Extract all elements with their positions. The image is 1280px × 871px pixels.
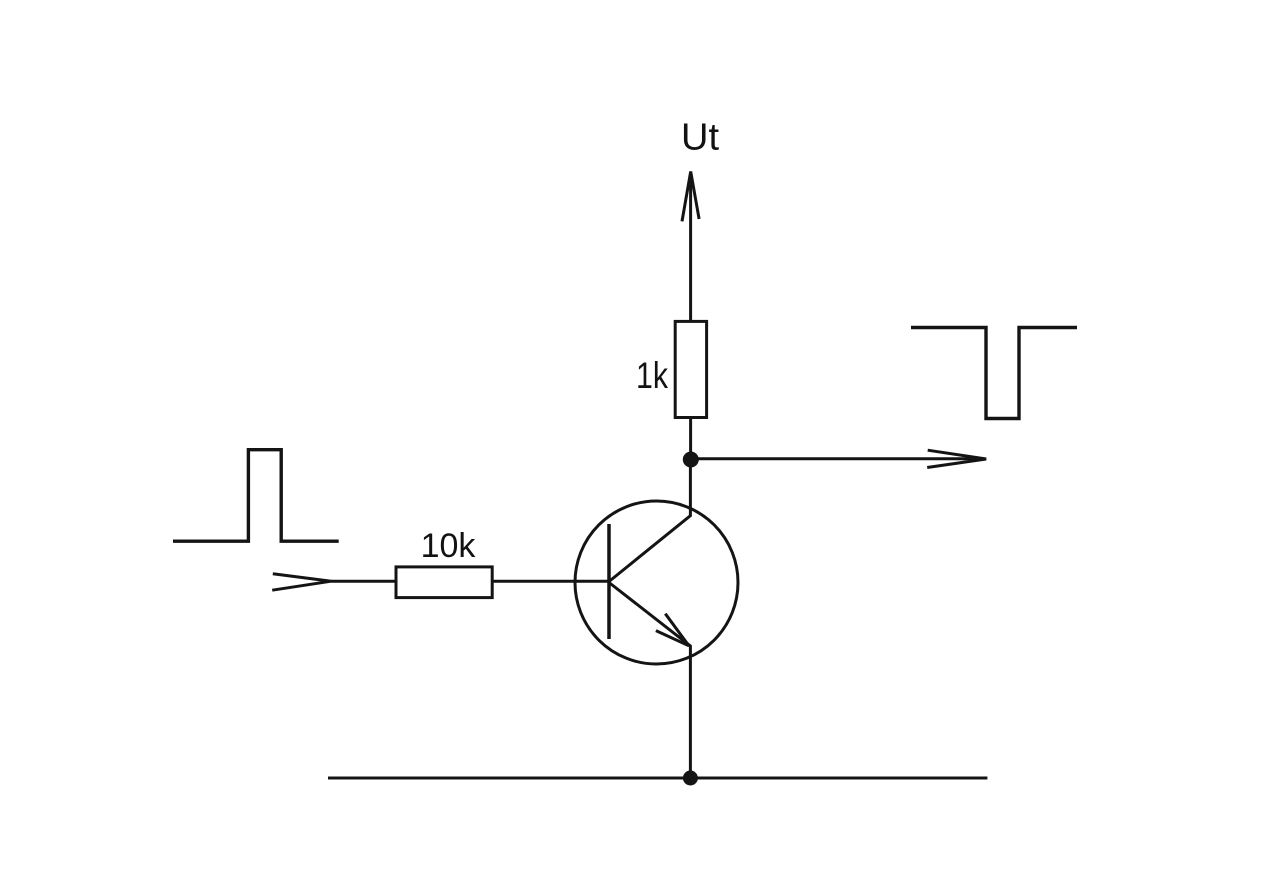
wire supply vertical to R1 bbox=[689, 173, 692, 321]
waveform input pulse (positive) bbox=[173, 450, 339, 542]
transistor Q1 collector lead and wire to node bbox=[609, 460, 690, 582]
transistor Q1 emitter lead and wire to ground bbox=[609, 583, 690, 779]
wire output horizontal bbox=[691, 457, 984, 460]
junction node collector/output bbox=[683, 452, 699, 468]
arrowhead pointing up to Ut bbox=[682, 172, 699, 222]
svg-text:10k: 10k bbox=[421, 527, 477, 565]
transistor Q1 base bar bbox=[607, 524, 611, 639]
arrowhead output (points right) bbox=[927, 450, 986, 467]
svg-text:Ut: Ut bbox=[681, 117, 719, 159]
waveform output pulse (inverted) bbox=[911, 328, 1077, 419]
resistor R1 body bbox=[675, 321, 706, 417]
wire input arrow to R2 bbox=[331, 580, 396, 583]
transistor Q1 body circle bbox=[575, 501, 738, 664]
wire R1 bottom to collector node bbox=[689, 418, 692, 460]
junction node emitter/ground bbox=[683, 771, 698, 786]
transistor Q1 emitter arrowhead bbox=[656, 614, 689, 646]
wire R2 to base of Q1 bbox=[492, 580, 609, 583]
arrowhead input (points right) bbox=[272, 574, 331, 590]
wire ground rail bbox=[328, 777, 987, 780]
resistor R2 body bbox=[396, 567, 492, 598]
svg-text:1k: 1k bbox=[636, 355, 668, 396]
